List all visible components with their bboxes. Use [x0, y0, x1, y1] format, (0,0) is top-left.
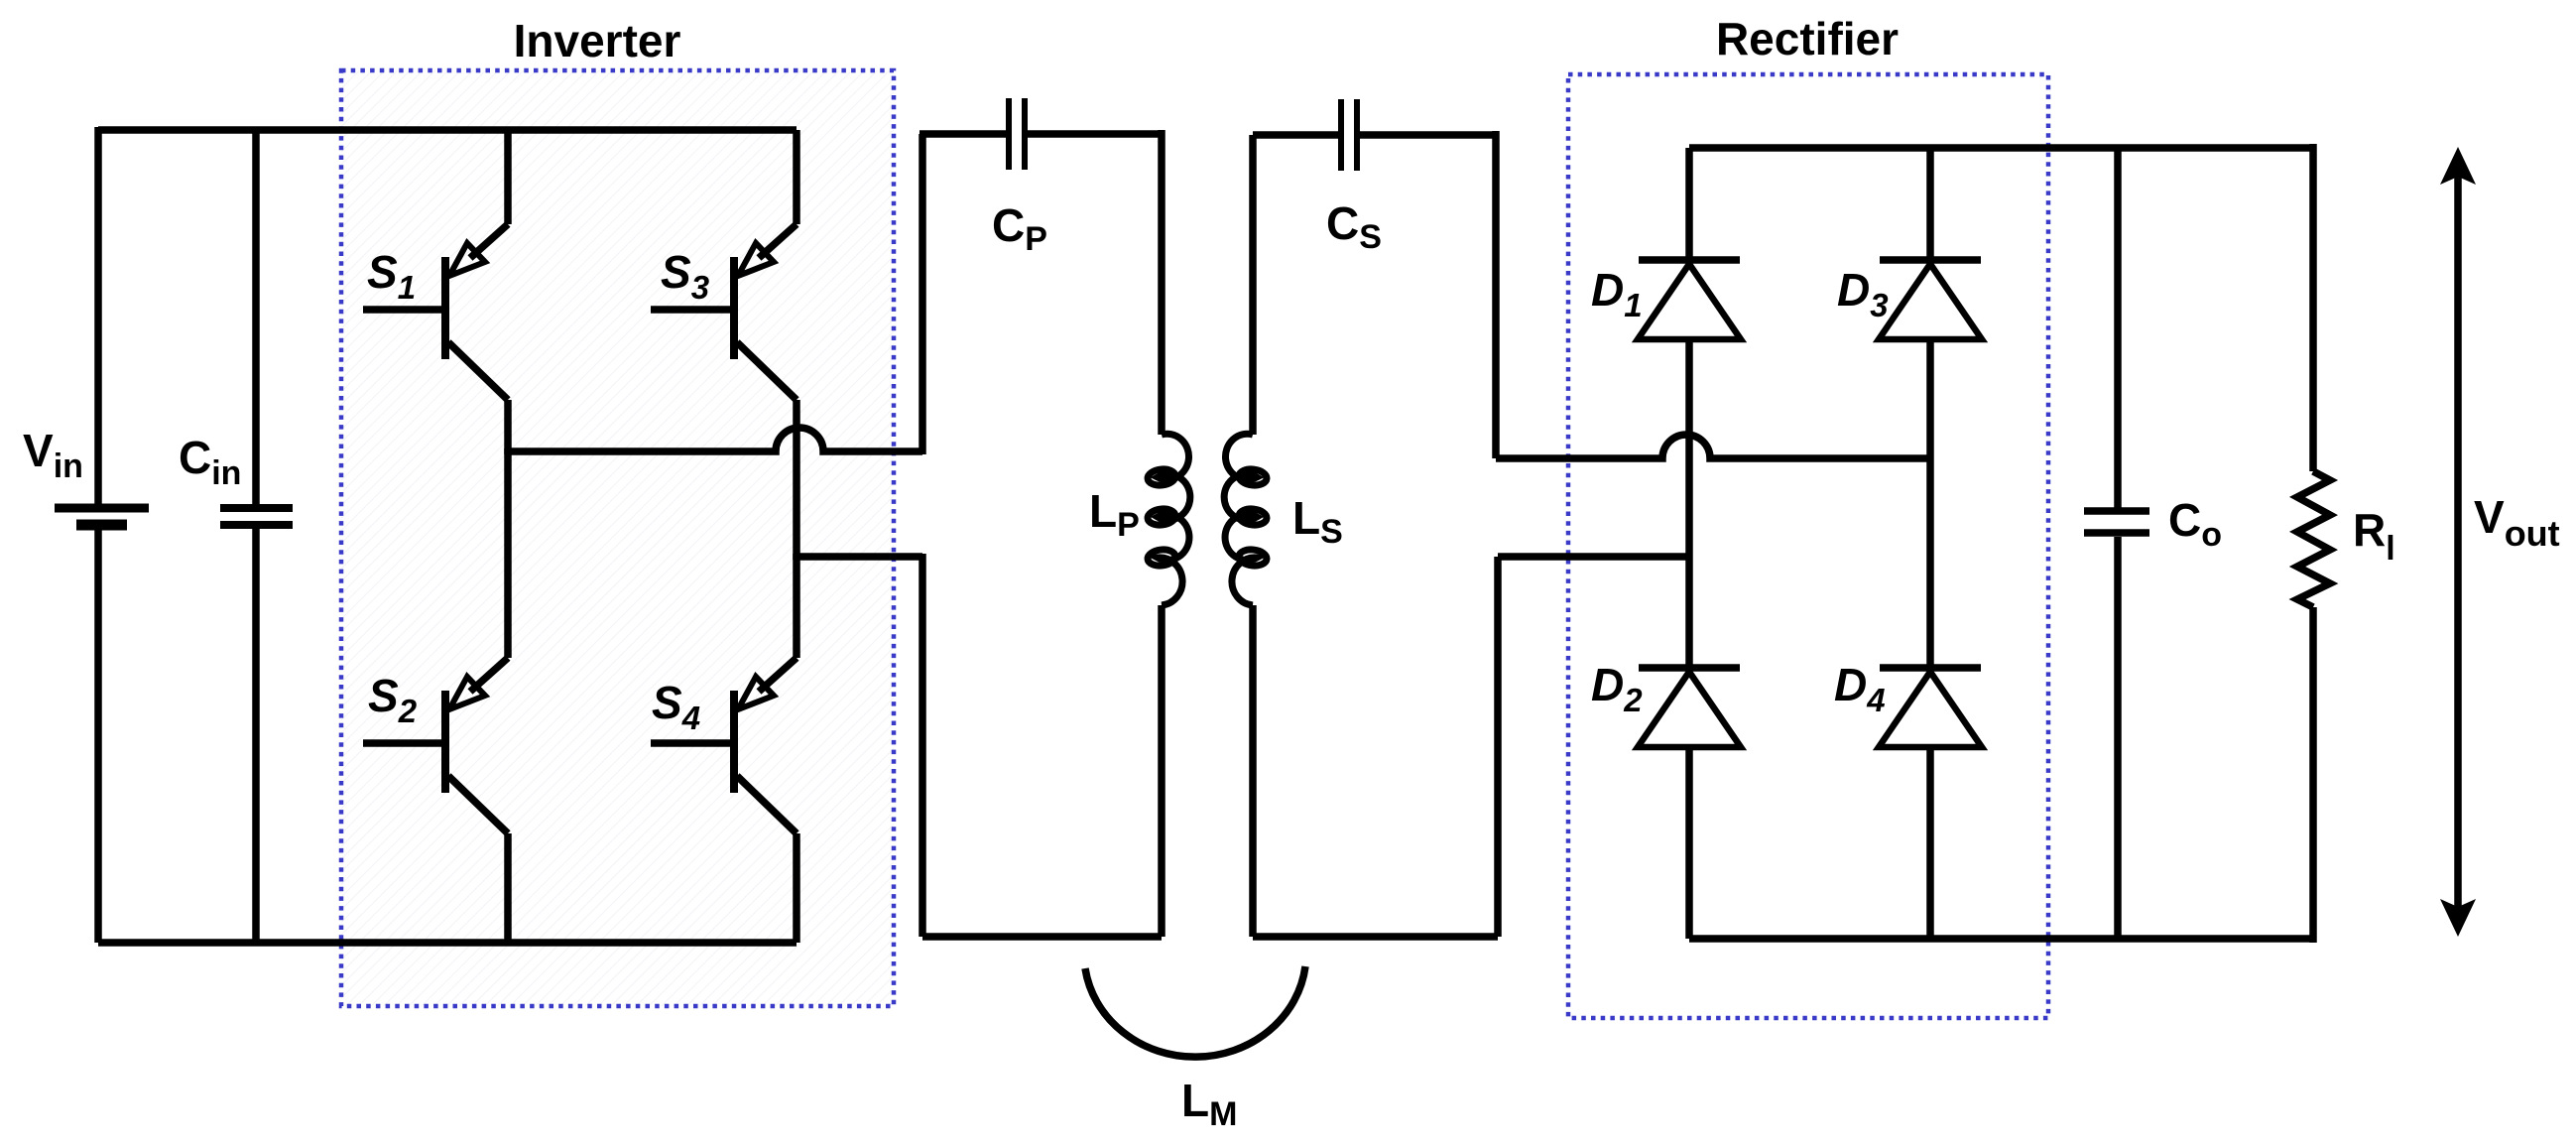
wire inverter mid output A with hop: [508, 428, 922, 451]
wire primary top right: [1025, 130, 1162, 138]
wire primary top left: [920, 130, 1009, 138]
battery V_in: [55, 508, 149, 525]
wire RL branch bottom: [2309, 607, 2317, 943]
transistor S1: [363, 130, 508, 454]
wire secondary bottom: [1253, 933, 1498, 941]
svg-text:LP: LP: [1089, 485, 1140, 544]
svg-text:D4: D4: [1834, 659, 1886, 718]
wire D1-D2 branch middle: [1685, 339, 1693, 668]
capacitor C_o: [2084, 511, 2149, 533]
svg-text:D3: D3: [1837, 264, 1889, 323]
inverter dotted box: [341, 70, 894, 1006]
wire primary right vertical: [1158, 130, 1165, 435]
wire secondary below coil: [1249, 605, 1257, 937]
inductor L_S: [1224, 434, 1268, 605]
wire Co branch bottom: [2114, 537, 2122, 939]
transistor S2: [363, 448, 508, 943]
transistor S4: [651, 554, 797, 943]
capacitor C_in: [220, 508, 293, 525]
svg-text:Vin: Vin: [23, 425, 83, 485]
wire secondary top left: [1253, 131, 1341, 139]
diode D4: [1879, 668, 1982, 939]
wire RL branch top: [2309, 144, 2317, 471]
svg-text:LM: LM: [1181, 1075, 1237, 1133]
wire top rail left: [98, 126, 797, 134]
wire Vin bottom vertical: [94, 529, 102, 943]
wire Vin top vertical: [94, 127, 102, 505]
svg-text:LS: LS: [1292, 492, 1343, 551]
wire secondary return vertical: [1494, 557, 1502, 937]
capacitor C_P: [1009, 98, 1025, 170]
inductor L_P: [1147, 434, 1190, 605]
svg-text:Rl: Rl: [2353, 504, 2395, 568]
resistor R_l: [2297, 471, 2330, 607]
svg-text:Vout: Vout: [2474, 491, 2560, 554]
wire primary bottom: [922, 933, 1162, 941]
svg-text:D1: D1: [1591, 264, 1643, 323]
wire rectifier bottom rail: [1689, 935, 2313, 943]
svg-text:CP: CP: [992, 199, 1047, 258]
transistor S3: [651, 130, 797, 560]
wire secondary left vertical up: [1249, 135, 1257, 435]
wire primary below coil: [1158, 605, 1165, 937]
wire Co branch top: [2114, 148, 2122, 508]
wire secondary top right: [1357, 131, 1496, 139]
wire primary left vertical lower: [919, 554, 926, 937]
wire secondary output B: [1498, 553, 1689, 561]
svg-text:Co: Co: [2168, 494, 2222, 554]
wire rectifier top rail: [1689, 144, 2313, 152]
wire Cin bottom vertical: [252, 529, 260, 943]
svg-text:CS: CS: [1326, 197, 1382, 256]
diode D1: [1638, 148, 1741, 339]
rectifier dotted box: [1568, 74, 2048, 1018]
capacitor C_S: [1341, 99, 1357, 171]
wire bottom rail left: [98, 939, 797, 947]
svg-text:D2: D2: [1591, 659, 1643, 718]
svg-text:Rectifier: Rectifier: [1716, 13, 1899, 64]
svg-text:Inverter: Inverter: [514, 15, 681, 66]
Vout arrow: [2440, 147, 2476, 937]
wire Cin top vertical: [252, 130, 260, 505]
wire secondary output A with hop: [1496, 435, 1930, 458]
wire secondary right vertical: [1492, 131, 1500, 458]
diode D3: [1879, 148, 1982, 339]
wire inverter mid output B: [797, 553, 922, 561]
diode D2: [1638, 668, 1741, 939]
svg-text:Cin: Cin: [179, 432, 241, 492]
mutual inductance arc L_M: [1085, 966, 1305, 1057]
wire D3-D4 branch middle: [1926, 339, 1934, 668]
wire primary loop left vertical up: [919, 134, 926, 454]
